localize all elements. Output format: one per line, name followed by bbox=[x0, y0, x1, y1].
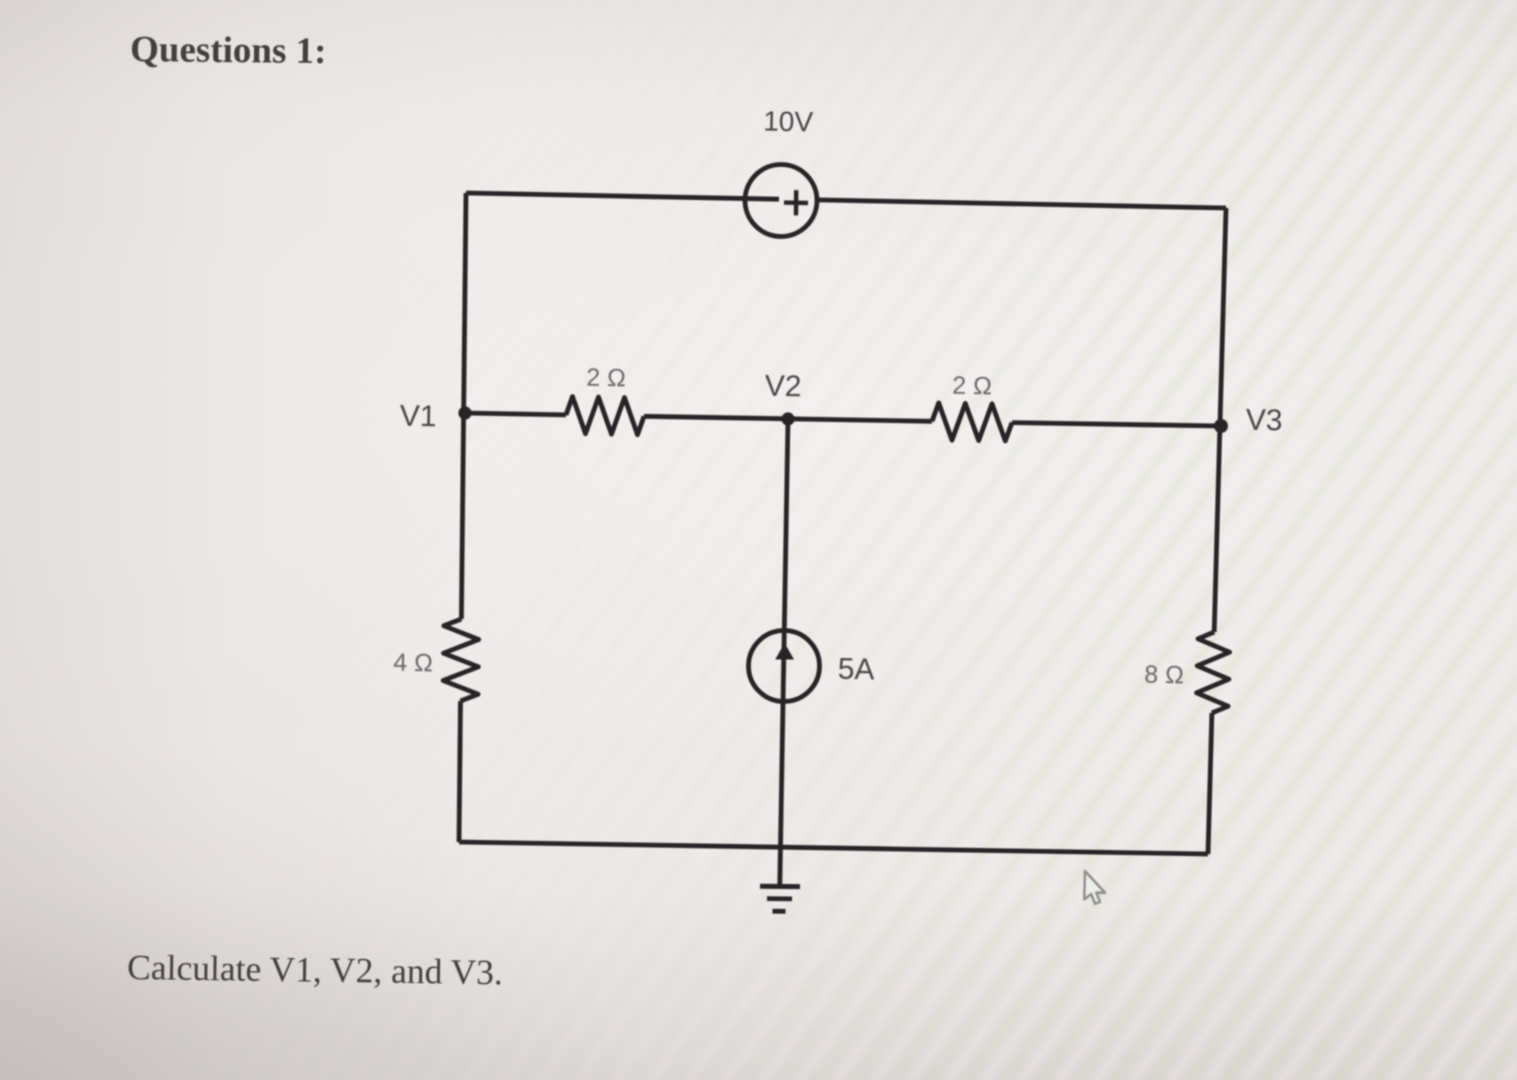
svg-text:2 Ω: 2 Ω bbox=[952, 372, 992, 401]
svg-text:V1: V1 bbox=[399, 400, 436, 434]
svg-text:Calculate V1, V2, and V3.: Calculate V1, V2, and V3. bbox=[127, 947, 503, 992]
svg-text:V2: V2 bbox=[764, 370, 801, 404]
svg-text:8 Ω: 8 Ω bbox=[1144, 661, 1184, 690]
svg-text:Questions 1:: Questions 1: bbox=[130, 29, 327, 72]
svg-text:5A: 5A bbox=[837, 653, 874, 687]
svg-text:2 Ω: 2 Ω bbox=[586, 364, 626, 393]
svg-text:10V: 10V bbox=[763, 106, 814, 138]
svg-text:4 Ω: 4 Ω bbox=[393, 649, 433, 678]
svg-text:V3: V3 bbox=[1245, 404, 1282, 438]
